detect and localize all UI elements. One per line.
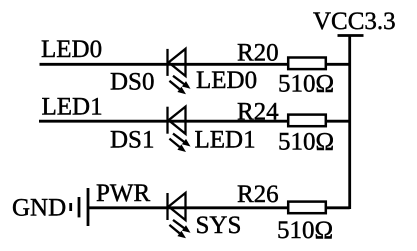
svg-text:R24: R24 bbox=[237, 99, 279, 126]
svg-text:PWR: PWR bbox=[96, 180, 151, 207]
svg-text:SYS: SYS bbox=[196, 212, 242, 239]
svg-text:510Ω: 510Ω bbox=[278, 71, 334, 98]
svg-text:LED1: LED1 bbox=[42, 94, 103, 121]
svg-text:DS0: DS0 bbox=[110, 69, 154, 96]
svg-text:R20: R20 bbox=[237, 40, 279, 67]
svg-text:LED0: LED0 bbox=[196, 67, 257, 94]
svg-text:510Ω: 510Ω bbox=[277, 217, 333, 244]
svg-text:GND: GND bbox=[12, 195, 66, 222]
svg-text:VCC3.3: VCC3.3 bbox=[313, 8, 396, 35]
svg-text:510Ω: 510Ω bbox=[278, 129, 334, 156]
svg-text:DS1: DS1 bbox=[110, 127, 154, 154]
svg-text:LED1: LED1 bbox=[195, 127, 256, 154]
svg-text:R26: R26 bbox=[237, 181, 279, 208]
svg-text:LED0: LED0 bbox=[41, 36, 102, 63]
